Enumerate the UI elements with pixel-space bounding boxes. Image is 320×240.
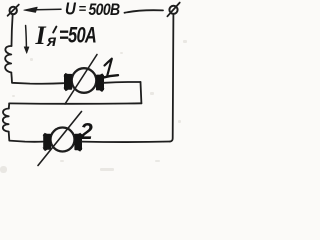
label Iя'=50A [35, 21, 97, 50]
wire (left drop to L2) [8, 103, 10, 108]
svg-text:I: I [35, 21, 47, 50]
wire (left drop from T1) [12, 14, 13, 46]
svg-text:=50A: =50A [59, 23, 96, 48]
svg-text:500В: 500В [89, 1, 121, 19]
machine M1 right brush [96, 73, 105, 92]
label 1 [102, 59, 118, 78]
machine M2 shaft diagonal [38, 112, 82, 166]
label 2 [79, 118, 93, 144]
terminal T2 (top-right, circle with slash) [167, 3, 179, 17]
wire (L2 to M2 left brush) [9, 132, 43, 142]
wire (middle return, right to left) [9, 102, 141, 105]
wire (right rail up to T2) [170, 14, 173, 142]
svg-text:=: = [79, 1, 87, 16]
current arrow I (down) [24, 26, 29, 54]
svg-text:2: 2 [79, 118, 93, 144]
wire (drop at x=141) [140, 82, 143, 103]
inductor L1 (upper field coil) [5, 46, 11, 73]
terminal T1 (top-left, circle with slash) [8, 5, 19, 16]
machine M1 left brush [63, 73, 72, 91]
paper noise smudges [0, 40, 187, 173]
wire (M2 right brush to bottom-right corner) [82, 141, 170, 144]
wire (M1 right brush to right drop) [104, 81, 141, 84]
wire (top, text to T2) [125, 10, 164, 13]
svg-text:U: U [65, 0, 76, 19]
label U=500V [65, 0, 120, 19]
machine M1 shaft diagonal [65, 55, 97, 105]
wire (L1 to M1 left brush) [11, 73, 63, 84]
machine M2 right brush [74, 133, 82, 152]
svg-text:я: я [46, 33, 57, 50]
arrow (U direction, pointing left) [24, 7, 61, 12]
machine M1 armature circle [72, 68, 97, 93]
inductor L2 (lower field coil) [3, 109, 9, 132]
machine M2 left brush [43, 133, 52, 151]
machine M2 armature circle [51, 128, 75, 152]
